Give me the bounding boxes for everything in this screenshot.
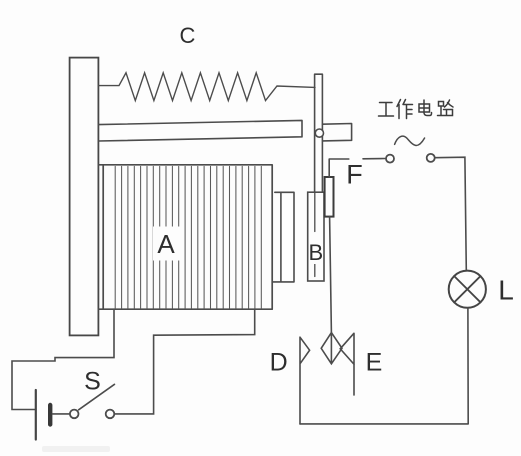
switch S terminal 2: [106, 410, 115, 419]
pole piece: [272, 192, 294, 282]
faint scan smudge: [42, 446, 110, 452]
svg-text:A: A: [157, 229, 175, 259]
switch S blade: [79, 384, 115, 410]
wire battery to switch: [52, 413, 69, 415]
armature B bar: [315, 74, 323, 192]
lever arm right: [323, 124, 352, 141]
wire armature to contact F gap: [329, 159, 349, 177]
svg-text:L: L: [498, 275, 514, 306]
coil A outline: [98, 165, 272, 309]
wire coil bottom-left to battery: [12, 309, 114, 409]
svg-text:S: S: [84, 368, 101, 396]
battery long plate: [35, 390, 37, 440]
svg-text:C: C: [180, 23, 196, 48]
AC source squiggle: [395, 136, 425, 145]
contact plate on armature: [325, 177, 334, 217]
switch S terminal 1: [70, 410, 79, 419]
coil A winding hatch: [115, 166, 261, 308]
armature B lower strip: [308, 192, 324, 281]
contact E: [340, 333, 354, 395]
wire right terminal to lamp: [435, 157, 467, 270]
contact D: [300, 337, 310, 424]
battery short plate: [48, 405, 52, 425]
label A: [153, 227, 180, 261]
lever arm left: [98, 120, 302, 141]
svg-text:D: D: [270, 349, 288, 377]
contact F terminal circle left: [386, 155, 394, 163]
spring C: [98, 73, 315, 101]
svg-text:E: E: [366, 349, 383, 377]
lamp L: [449, 271, 486, 308]
support frame: [70, 58, 99, 336]
label B: [309, 238, 323, 264]
moving contact diamond: [321, 333, 342, 364]
wire plate to moving contact: [330, 217, 332, 333]
svg-text:F: F: [346, 160, 363, 190]
pivot: [315, 129, 323, 137]
svg-text:B: B: [308, 240, 323, 265]
contact F terminal circle right: [427, 154, 435, 162]
bottom wire to lamp: [300, 308, 468, 424]
wire switch to coil bottom-right: [114, 309, 254, 414]
contact F left terminal wire: [363, 158, 385, 160]
label working circuit (hand-drawn CJK): [379, 100, 454, 119]
